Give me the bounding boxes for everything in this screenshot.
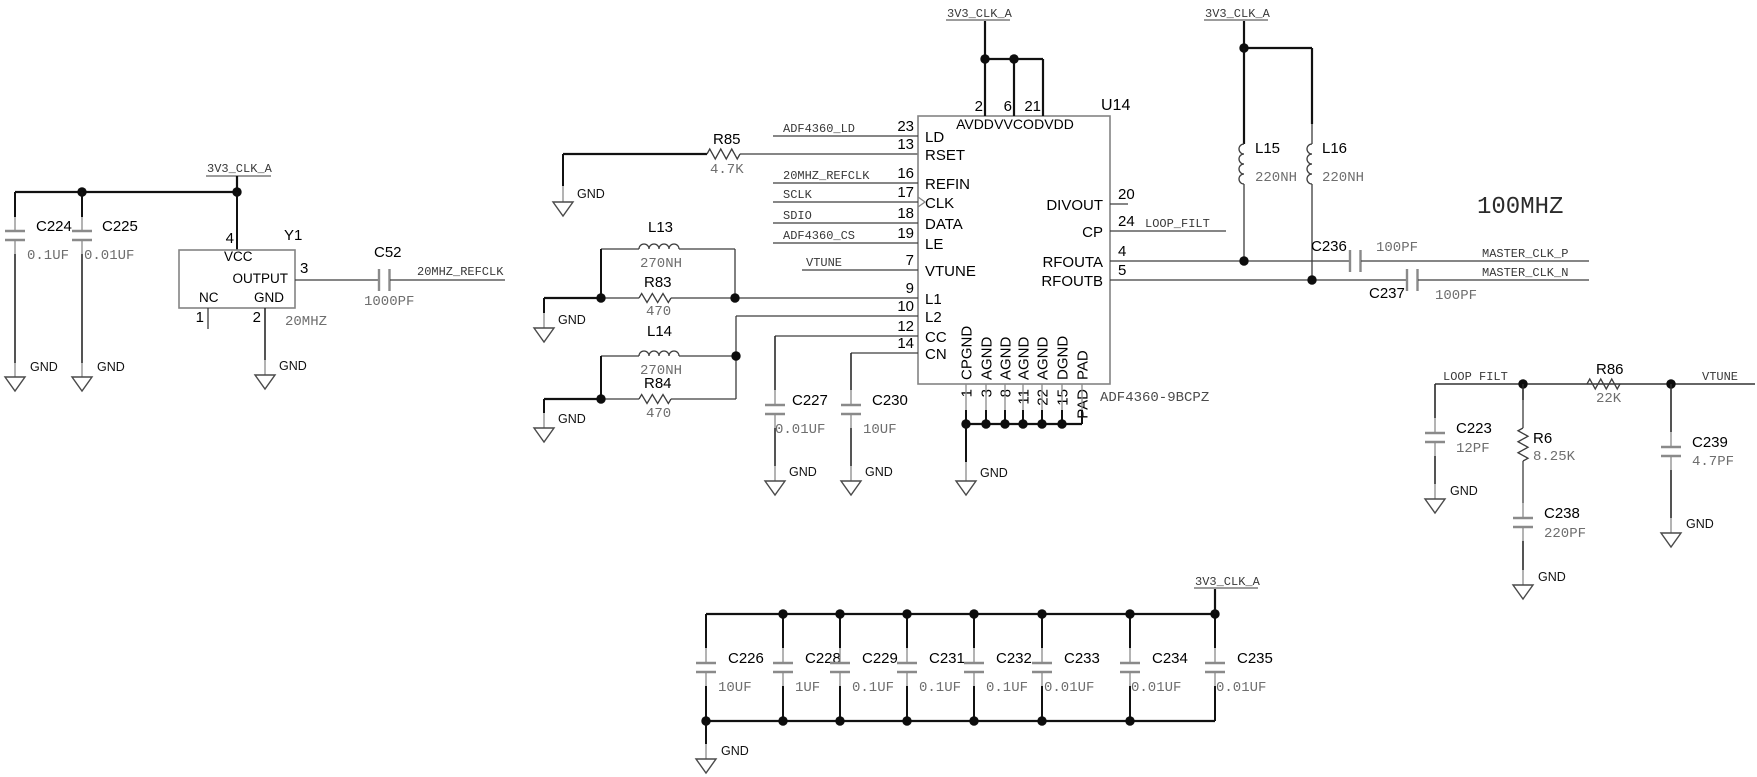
svg-text:GND: GND — [254, 290, 284, 305]
svg-text:12PF: 12PF — [1456, 441, 1490, 457]
svg-text:ADF4360-9BCPZ: ADF4360-9BCPZ — [1100, 390, 1209, 406]
svg-text:20: 20 — [1118, 186, 1135, 203]
svg-text:GND: GND — [1538, 570, 1566, 584]
svg-text:C233: C233 — [1064, 650, 1100, 667]
svg-text:220NH: 220NH — [1322, 170, 1364, 186]
svg-text:10UF: 10UF — [718, 680, 752, 696]
svg-text:3V3_CLK_A: 3V3_CLK_A — [207, 162, 273, 176]
svg-text:DVDD: DVDD — [1034, 116, 1074, 132]
svg-text:13: 13 — [897, 136, 914, 153]
svg-text:DATA: DATA — [925, 216, 963, 233]
svg-text:C238: C238 — [1544, 505, 1580, 522]
svg-text:ADF4360_CS: ADF4360_CS — [783, 229, 855, 243]
svg-text:470: 470 — [646, 406, 671, 422]
svg-text:0.1UF: 0.1UF — [852, 680, 894, 696]
svg-text:DGND: DGND — [1055, 336, 1072, 380]
svg-text:5: 5 — [1118, 262, 1126, 279]
svg-text:0.01UF: 0.01UF — [84, 248, 134, 264]
svg-text:2: 2 — [975, 98, 983, 115]
svg-text:CP: CP — [1082, 224, 1103, 241]
svg-text:LOOP FILT: LOOP FILT — [1443, 370, 1508, 384]
svg-text:12: 12 — [897, 318, 914, 335]
svg-text:R86: R86 — [1596, 361, 1624, 378]
svg-text:10: 10 — [897, 298, 914, 315]
svg-text:MASTER_CLK_N: MASTER_CLK_N — [1482, 266, 1568, 280]
svg-text:REFIN: REFIN — [925, 176, 970, 193]
svg-text:20MHZ_REFCLK: 20MHZ_REFCLK — [783, 169, 870, 183]
svg-text:AGND: AGND — [998, 336, 1015, 380]
svg-text:17: 17 — [897, 184, 914, 201]
svg-text:MASTER_CLK_P: MASTER_CLK_P — [1482, 247, 1568, 261]
svg-text:270NH: 270NH — [640, 256, 682, 272]
svg-text:C223: C223 — [1456, 420, 1492, 437]
svg-text:L1: L1 — [925, 291, 942, 308]
svg-text:PAD: PAD — [1075, 350, 1092, 380]
svg-text:C232: C232 — [996, 650, 1032, 667]
svg-text:VTUNE: VTUNE — [806, 256, 842, 270]
svg-text:SDIO: SDIO — [783, 209, 812, 223]
svg-text:AGND: AGND — [1035, 336, 1052, 380]
svg-text:C52: C52 — [374, 244, 402, 261]
svg-text:GND: GND — [577, 187, 605, 201]
svg-text:24: 24 — [1118, 213, 1135, 230]
svg-text:3: 3 — [300, 260, 308, 277]
svg-text:RSET: RSET — [925, 147, 965, 164]
svg-text:OUTPUT: OUTPUT — [233, 271, 289, 286]
svg-text:Y1: Y1 — [284, 227, 302, 244]
svg-text:1000PF: 1000PF — [364, 294, 414, 310]
svg-text:R6: R6 — [1533, 430, 1552, 447]
svg-text:220NH: 220NH — [1255, 170, 1297, 186]
svg-text:LOOP_FILT: LOOP_FILT — [1145, 217, 1210, 231]
svg-text:GND: GND — [30, 360, 58, 374]
svg-text:18: 18 — [897, 205, 914, 222]
svg-text:VTUNE: VTUNE — [1702, 370, 1738, 384]
svg-text:10UF: 10UF — [863, 422, 897, 438]
svg-text:C237: C237 — [1369, 285, 1405, 302]
svg-text:4: 4 — [1118, 243, 1126, 260]
svg-text:0.01UF: 0.01UF — [775, 422, 825, 438]
svg-text:C239: C239 — [1692, 434, 1728, 451]
svg-text:CLK: CLK — [925, 195, 954, 212]
svg-text:3V3_CLK_A: 3V3_CLK_A — [947, 7, 1013, 21]
svg-text:C236: C236 — [1311, 238, 1347, 255]
svg-text:L15: L15 — [1255, 140, 1280, 157]
svg-text:0.1UF: 0.1UF — [919, 680, 961, 696]
svg-text:1: 1 — [196, 309, 204, 326]
svg-text:RFOUTA: RFOUTA — [1042, 254, 1103, 271]
svg-text:470: 470 — [646, 304, 671, 320]
svg-text:RFOUTB: RFOUTB — [1041, 273, 1103, 290]
svg-text:0.01UF: 0.01UF — [1044, 680, 1094, 696]
svg-text:GND: GND — [1450, 484, 1478, 498]
svg-text:C226: C226 — [728, 650, 764, 667]
svg-text:GND: GND — [558, 313, 586, 327]
svg-text:LE: LE — [925, 236, 943, 253]
svg-text:C234: C234 — [1152, 650, 1188, 667]
svg-text:4: 4 — [226, 230, 234, 247]
svg-text:L16: L16 — [1322, 140, 1347, 157]
svg-text:DIVOUT: DIVOUT — [1046, 197, 1103, 214]
svg-text:VCC: VCC — [224, 249, 253, 264]
svg-text:8.25K: 8.25K — [1533, 449, 1576, 465]
svg-text:GND: GND — [865, 465, 893, 479]
svg-text:SCLK: SCLK — [783, 188, 813, 202]
svg-text:ADF4360_LD: ADF4360_LD — [783, 122, 855, 136]
svg-text:GND: GND — [279, 359, 307, 373]
svg-text:20MHZ: 20MHZ — [285, 314, 327, 330]
svg-text:NC: NC — [199, 290, 219, 305]
svg-text:3V3_CLK_A: 3V3_CLK_A — [1205, 7, 1271, 21]
svg-text:1UF: 1UF — [795, 680, 820, 696]
svg-text:AGND: AGND — [979, 336, 996, 380]
svg-text:20MHZ_REFCLK: 20MHZ_REFCLK — [417, 265, 504, 279]
svg-text:21: 21 — [1024, 98, 1041, 115]
svg-text:L13: L13 — [648, 219, 673, 236]
svg-text:C231: C231 — [929, 650, 965, 667]
svg-text:22K: 22K — [1596, 391, 1622, 407]
svg-text:1: 1 — [959, 389, 976, 397]
svg-text:8: 8 — [998, 389, 1015, 397]
svg-text:AGND: AGND — [1016, 336, 1033, 380]
svg-text:R84: R84 — [644, 375, 672, 392]
svg-text:0.1UF: 0.1UF — [27, 248, 69, 264]
svg-text:0.1UF: 0.1UF — [986, 680, 1028, 696]
svg-text:11: 11 — [1016, 389, 1033, 405]
svg-text:R85: R85 — [713, 131, 741, 148]
svg-text:100PF: 100PF — [1435, 288, 1477, 304]
svg-text:R83: R83 — [644, 274, 672, 291]
svg-text:CC: CC — [925, 329, 947, 346]
svg-text:VTUNE: VTUNE — [925, 263, 976, 280]
svg-text:100MHZ: 100MHZ — [1477, 194, 1563, 221]
svg-text:GND: GND — [1686, 517, 1714, 531]
svg-text:C224: C224 — [36, 218, 72, 235]
svg-text:GND: GND — [721, 744, 749, 758]
svg-text:L2: L2 — [925, 309, 942, 326]
svg-text:LD: LD — [925, 129, 944, 146]
svg-text:4.7PF: 4.7PF — [1692, 454, 1734, 470]
svg-text:9: 9 — [906, 280, 914, 297]
svg-text:15: 15 — [1055, 389, 1072, 406]
svg-text:220PF: 220PF — [1544, 526, 1586, 542]
svg-text:7: 7 — [906, 252, 914, 269]
svg-text:AVDD: AVDD — [956, 116, 994, 132]
svg-text:C227: C227 — [792, 392, 828, 409]
svg-text:3: 3 — [979, 389, 996, 397]
svg-text:GND: GND — [980, 466, 1008, 480]
svg-text:0.01UF: 0.01UF — [1216, 680, 1266, 696]
svg-text:0.01UF: 0.01UF — [1131, 680, 1181, 696]
svg-text:14: 14 — [897, 335, 914, 352]
svg-text:L14: L14 — [647, 323, 672, 340]
svg-text:CN: CN — [925, 346, 947, 363]
svg-text:4.7K: 4.7K — [710, 162, 744, 178]
svg-text:3V3_CLK_A: 3V3_CLK_A — [1195, 575, 1261, 589]
svg-text:16: 16 — [897, 165, 914, 182]
svg-text:C228: C228 — [805, 650, 841, 667]
svg-text:CPGND: CPGND — [959, 326, 976, 380]
svg-text:2: 2 — [253, 309, 261, 326]
svg-text:GND: GND — [97, 360, 125, 374]
svg-text:23: 23 — [897, 118, 914, 135]
svg-text:22: 22 — [1035, 389, 1052, 406]
svg-text:C229: C229 — [862, 650, 898, 667]
svg-text:U14: U14 — [1101, 97, 1130, 114]
svg-text:VVCO: VVCO — [994, 116, 1034, 132]
svg-text:C225: C225 — [102, 218, 138, 235]
svg-text:GND: GND — [789, 465, 817, 479]
svg-text:100PF: 100PF — [1376, 240, 1418, 256]
svg-text:C235: C235 — [1237, 650, 1273, 667]
svg-text:19: 19 — [897, 225, 914, 242]
svg-text:6: 6 — [1004, 98, 1012, 115]
svg-text:GND: GND — [558, 412, 586, 426]
svg-text:C230: C230 — [872, 392, 908, 409]
